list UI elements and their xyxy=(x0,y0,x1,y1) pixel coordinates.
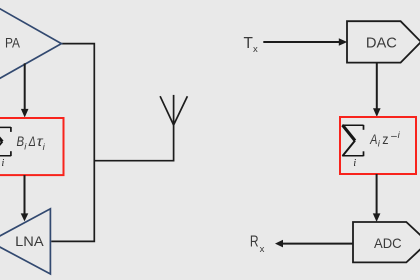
delay block red box (sum Bi dTau i) xyxy=(0,118,64,175)
amplifier LNA xyxy=(0,209,50,274)
svg-text:x: x xyxy=(253,44,258,55)
summation sigma (right) xyxy=(342,125,363,156)
svg-text:DAC: DAC xyxy=(366,34,397,51)
svg-text:R: R xyxy=(250,233,259,250)
converter ADC xyxy=(353,222,420,262)
wire arrow: delay block to LNA xyxy=(21,175,29,221)
svg-text:x: x xyxy=(260,244,265,255)
wire: PA output feedback loop to LNA input xyxy=(51,44,94,242)
wire arrow: PA to delay block xyxy=(21,63,29,117)
wire arrow: filter block to ADC xyxy=(373,174,381,222)
wire arrow: ADC to Rx xyxy=(275,240,353,248)
wire arrow: DAC to filter block xyxy=(373,63,381,117)
antenna xyxy=(160,95,187,125)
svg-text:−: − xyxy=(391,131,398,143)
exponent -i xyxy=(391,130,401,143)
svg-text:ADC: ADC xyxy=(374,235,402,251)
svg-text:B: B xyxy=(17,133,25,149)
svg-text:i: i xyxy=(2,158,5,169)
converter DAC xyxy=(347,21,420,62)
svg-text:T: T xyxy=(244,35,254,52)
summation sigma (left, clipped at page edge) xyxy=(0,127,11,156)
svg-text:z: z xyxy=(382,131,388,147)
value label Ai z^-i xyxy=(369,131,388,150)
svg-text:A: A xyxy=(369,131,377,147)
value label Bi * dTau i xyxy=(17,133,46,153)
filter block red box (sum Ai z^-i) xyxy=(340,117,416,174)
svg-text:Δ: Δ xyxy=(28,133,36,149)
amplifier PA xyxy=(0,0,61,90)
wire: antenna feed branch xyxy=(94,124,173,160)
svg-text:PA: PA xyxy=(5,35,21,51)
wire arrow: Tx to DAC xyxy=(263,38,347,46)
svg-text:i: i xyxy=(353,158,356,169)
svg-text:LNA: LNA xyxy=(15,233,44,249)
